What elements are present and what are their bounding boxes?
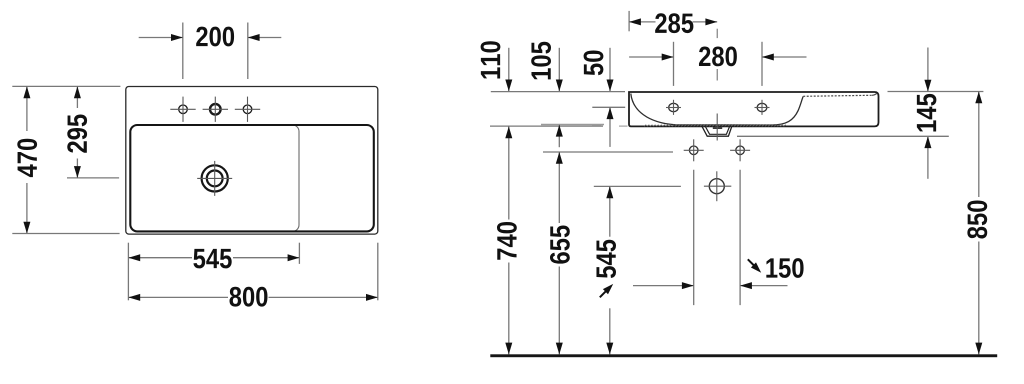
dimension 110 top arrow (down to rim) [505, 48, 512, 92]
fixing holes level extension line (655) [543, 151, 673, 153]
dimension 150 pointer arrow (diagonal SE) [748, 259, 761, 272]
floor line (thick) [490, 354, 997, 357]
dimension 470/295 bottom extension line [12, 233, 119, 235]
dimension 105 bottom arrow (up to bowl bottom line) [556, 125, 563, 147]
dimension 50 top arrow (down to rim) [607, 48, 614, 92]
dimension 470/295 top extension line [12, 85, 120, 87]
dimension 295 label [67, 115, 87, 153]
dimension 280 label [699, 46, 737, 66]
plan view: drain outlet (two concentric circles) with crosshair [197, 161, 232, 196]
dimension 850 label [967, 201, 987, 239]
dimension 285 left extension line (basin edge) [628, 11, 630, 31]
dimension 150 extension lines below fixing holes [694, 170, 740, 305]
dimension 655 label [550, 226, 570, 264]
elevation: siphon cover (trapezoid) below basin [702, 126, 732, 136]
siphon level extension line (545) [594, 185, 681, 187]
dimension 110 label [481, 41, 501, 78]
elevation: wall fixing hole left below basin [684, 139, 704, 161]
plan view: faucet hole left with centermark crosshair [170, 97, 195, 122]
dimension 800 line with arrows [128, 294, 377, 301]
basin underside level line 110 below rim [490, 125, 628, 127]
dimension 545 line with arrows [128, 254, 299, 261]
dimension 200 label [196, 27, 234, 47]
elevation: basin body outline [629, 92, 879, 126]
elevation: siphon outlet circle with crosshair [704, 171, 731, 201]
siphon cover bottom extension line (145 level) [737, 135, 949, 137]
elevation: tap hole right on deck with crosshair [755, 100, 770, 115]
dimension 470 label [17, 139, 37, 177]
dimension 285 line with arrows (basin edge to drain center) [629, 18, 717, 25]
dimension 280 arrows (outside, pointing inward) [629, 54, 806, 61]
dimension 545/800 left extension line [127, 243, 129, 301]
elevation: wall fixing hole right below basin [730, 139, 750, 161]
plan view: bowl inner outline (left basin) with divider edge [130, 125, 299, 231]
dimension 105 label [531, 42, 551, 80]
elevation: shelf deck edge line (dotted) [803, 93, 877, 96]
bowl bottom level line 105 below rim (gray) [541, 124, 604, 127]
rim level extension line right [888, 91, 984, 93]
dimension 105 top arrow (down to rim) [556, 48, 563, 92]
dimension 545 line with arrows (floor to siphon center) [606, 186, 613, 354]
plan view: faucet hole right with centermark crosshair [235, 97, 260, 122]
dimension 150 label [766, 258, 803, 278]
elevation: vertical centerline through drain (dash-dot) [716, 29, 718, 141]
dimension 150 arrows (outside, pointing inward) [633, 282, 788, 289]
dimension 545 label (elevation) [596, 240, 616, 278]
dimension 740 line with arrows (floor to basin underside) [505, 126, 512, 354]
dimension 295 line with arrows [74, 86, 81, 177]
dimension 50 label [584, 51, 604, 76]
dimension 800 label [230, 287, 268, 307]
dimension 850 line with arrows (floor to rim) [975, 92, 982, 355]
elevation: hatch band at bowl bottom [644, 125, 786, 126]
dimension 285 label [655, 13, 693, 33]
dimension 145 line with arrows (rim to siphon cover bottom) [924, 48, 931, 179]
dimension 800 right extension line [377, 243, 379, 301]
washbasin plan view: outer ceramic outline 800x470 [126, 87, 378, 235]
elevation: bowl interior profile curve [631, 94, 803, 126]
dimension 655 line with arrows (floor to fixing holes) [556, 152, 563, 354]
dimension 545 label (plan) [193, 249, 231, 269]
dimension 145 label [917, 94, 937, 132]
plan view: faucet hole middle with centermark crosshair [203, 97, 228, 122]
dimension 470 line with arrows [23, 86, 30, 233]
dimension 545 pointer arrow (diagonal NE) [600, 284, 613, 297]
dimension 200 arrows (outside, pointing inward) [139, 34, 282, 41]
dimension 200 extension lines (tap hole pitch) [183, 23, 248, 80]
rim level extension line left [491, 91, 625, 93]
overflow level line (50 below rim) [592, 106, 625, 108]
dimension 740 label [497, 222, 517, 260]
elevation: tap hole left on deck with crosshair [666, 100, 681, 115]
dimension 50 bottom arrow (up to overflow line) [607, 107, 614, 147]
dimension 280 left extension line (tap hole center) [673, 42, 675, 86]
dimension 280 right extension line [761, 42, 763, 86]
plan view: inner rim outline (full basin incl. right shelf) [130, 125, 373, 231]
dimension 295 drain-center extension line [67, 177, 119, 179]
dimension 545 right extension line [298, 243, 300, 264]
